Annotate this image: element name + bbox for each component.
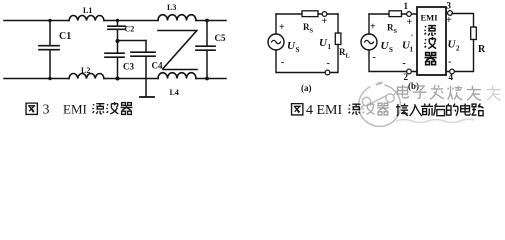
resistor RS (b) xyxy=(389,11,402,17)
svg-text:S: S xyxy=(296,46,300,54)
wire (b) right lower xyxy=(455,40,474,72)
caption fig3 波 xyxy=(107,102,119,114)
svg-text:(a): (a) xyxy=(301,83,312,93)
node C1 bottom xyxy=(48,77,51,80)
node C2 top xyxy=(116,19,119,22)
inductor L2 xyxy=(69,73,104,78)
wire (b) bottom mid xyxy=(412,71,450,73)
svg-text:3: 3 xyxy=(447,1,452,11)
svg-text:S: S xyxy=(394,28,398,35)
watermark text 电子发烧友 xyxy=(398,85,501,101)
node C5 bottom xyxy=(205,77,209,81)
EMI filter box U1 xyxy=(417,7,446,75)
EMI box vertical 波 xyxy=(425,37,437,49)
caption fig4 图 xyxy=(292,104,303,115)
caption fig4 入 xyxy=(410,104,422,116)
resistor R xyxy=(471,27,477,40)
caption fig4 电 xyxy=(461,104,470,116)
capacitor C1 xyxy=(49,21,51,46)
resistor RL xyxy=(335,33,341,45)
wire (a) right lower xyxy=(330,45,338,73)
svg-text:C3: C3 xyxy=(123,62,134,72)
svg-text:1: 1 xyxy=(404,1,409,11)
capacitor C3 xyxy=(117,41,119,53)
svg-text:C1: C1 xyxy=(59,31,71,42)
capacitor C5 xyxy=(206,21,208,46)
svg-text:4 EMI: 4 EMI xyxy=(306,103,343,118)
caption fig4 的 xyxy=(447,104,458,116)
svg-text:S: S xyxy=(310,28,314,35)
wire bottom rail left segment xyxy=(4,78,69,80)
svg-text:-: - xyxy=(327,58,330,69)
svg-text:′: ′ xyxy=(411,33,413,42)
svg-text:C4: C4 xyxy=(152,61,163,71)
ground xyxy=(140,96,154,98)
svg-text:3: 3 xyxy=(43,103,50,118)
source US (a) xyxy=(268,34,284,50)
svg-text:4: 4 xyxy=(449,72,454,82)
caption fig3 图 xyxy=(26,103,37,114)
terminal 2 xyxy=(407,69,412,74)
svg-text:L1: L1 xyxy=(83,6,92,15)
svg-text:+: + xyxy=(446,15,452,26)
wire bottom rail right segment xyxy=(196,78,226,80)
svg-text:EMI: EMI xyxy=(63,102,87,117)
caption fig4 路 xyxy=(472,104,484,116)
svg-text:-: - xyxy=(403,58,406,69)
svg-text:+: + xyxy=(370,22,376,33)
terminal 1 xyxy=(407,12,412,17)
inductor L1 xyxy=(69,15,104,20)
svg-text:R: R xyxy=(478,44,486,55)
svg-text:-: - xyxy=(448,57,451,68)
inductor L3 xyxy=(158,15,196,21)
svg-text:-: - xyxy=(281,57,284,68)
watermark logo circle xyxy=(359,82,401,126)
capacitor C2 xyxy=(117,21,119,26)
node C3 bottom xyxy=(116,77,120,81)
EMI box vertical 滤 xyxy=(425,26,437,36)
wire (b) left upper xyxy=(368,14,370,34)
capacitor C4 xyxy=(145,41,147,52)
terminal (a) bottom xyxy=(325,70,330,75)
svg-text:L2: L2 xyxy=(81,66,90,75)
terminal 3 xyxy=(448,11,453,16)
wire (a) top xyxy=(276,13,338,15)
wire top rail right segment xyxy=(196,20,226,22)
common-mode core Z link xyxy=(158,30,197,32)
caption fig4 滤 xyxy=(349,104,361,114)
EMI box vertical 器 xyxy=(425,53,437,65)
wire (b) top left xyxy=(369,13,417,15)
wire (a) left upper xyxy=(275,14,277,34)
terminal (a) top xyxy=(322,12,327,17)
svg-text:EMI: EMI xyxy=(421,13,439,23)
source US (b) xyxy=(361,34,377,50)
caption fig4 前 xyxy=(421,104,433,116)
node C1 top xyxy=(48,19,51,22)
caption fig4 器 (faded by watermark) xyxy=(377,103,389,115)
node C2/C3 junction xyxy=(116,39,120,43)
svg-text:1: 1 xyxy=(328,43,332,51)
caption fig4 接 xyxy=(396,104,408,116)
svg-text:2: 2 xyxy=(456,45,460,53)
svg-text:-: - xyxy=(373,52,376,63)
wire C3-C4 bridge xyxy=(118,40,147,42)
wire top rail left segment xyxy=(4,20,69,22)
svg-text:+: + xyxy=(279,22,285,33)
wire (b) top right xyxy=(446,13,447,15)
svg-text:L4: L4 xyxy=(170,88,179,97)
wire bottom rail middle segment xyxy=(104,78,158,80)
resistor RS (a) xyxy=(302,11,318,17)
wire (a) right xyxy=(337,14,339,33)
svg-text:L: L xyxy=(346,53,351,60)
wire (a) bottom xyxy=(276,50,325,73)
terminal 4 xyxy=(450,69,455,74)
svg-text:+: + xyxy=(407,17,413,28)
caption fig3 滤 xyxy=(93,104,105,114)
svg-text:C5: C5 xyxy=(215,33,226,43)
svg-text:L3: L3 xyxy=(167,3,176,12)
svg-text:S: S xyxy=(389,46,393,54)
svg-text:C2: C2 xyxy=(125,25,135,34)
wire top rail middle segment xyxy=(104,20,158,22)
svg-text:+: + xyxy=(322,16,328,27)
wire (b) to R xyxy=(452,14,474,28)
wire (b) bottom left xyxy=(369,50,407,72)
svg-text:1: 1 xyxy=(410,46,414,54)
caption fig4 后 xyxy=(434,104,446,116)
watermark faint squiggle xyxy=(396,119,474,122)
node C5 top xyxy=(205,19,209,23)
caption fig3 器 xyxy=(121,103,133,115)
caption fig4 波 (faded by watermark) xyxy=(363,103,375,115)
inductor L4 xyxy=(158,73,196,79)
